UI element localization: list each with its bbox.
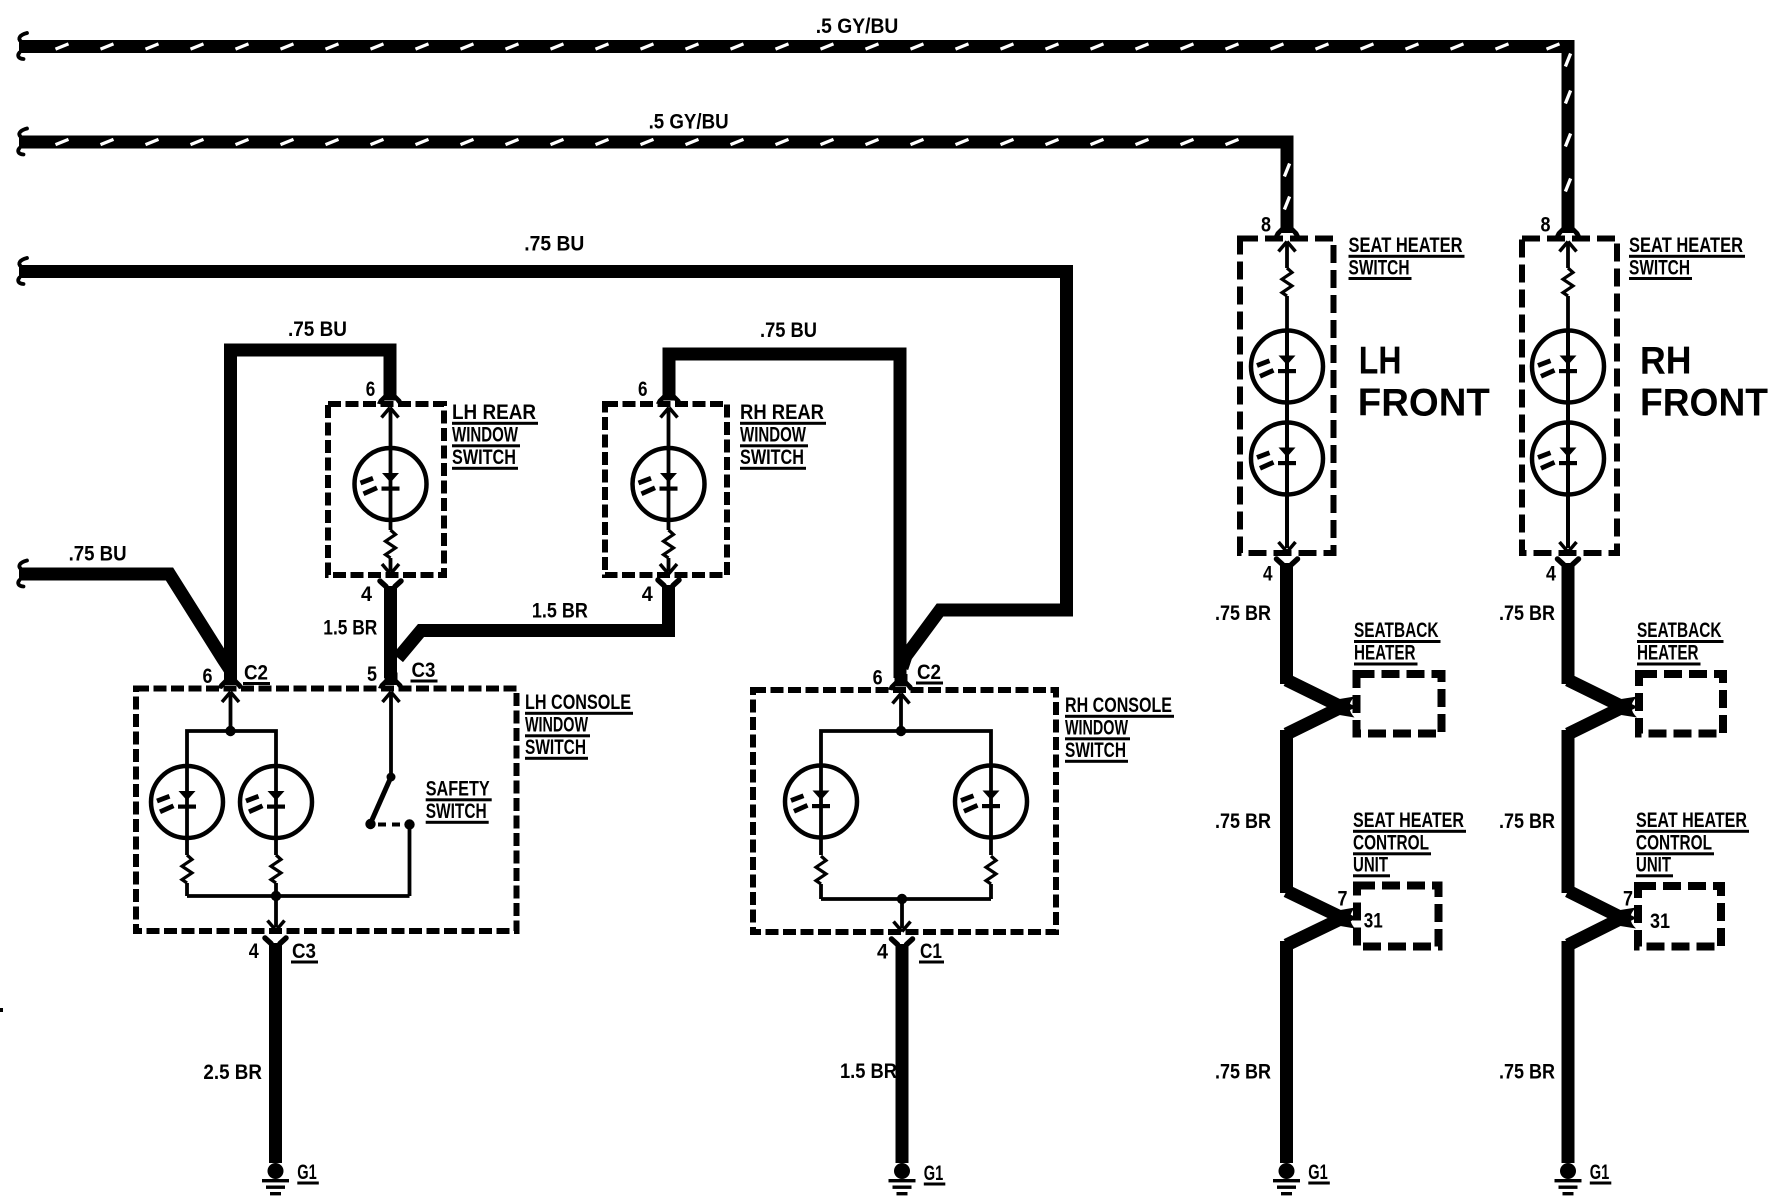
wire .75 BU left stub to LH console pin 6 bbox=[18, 561, 229, 670]
wire .5 GY/BU second feed bbox=[18, 129, 1289, 228]
resistor RH rear window switch bbox=[664, 530, 674, 571]
svg-text:LH REAR: LH REAR bbox=[452, 401, 536, 424]
lamp RH rear window switch bbox=[633, 448, 705, 530]
ground G1 (LH console) bbox=[262, 1163, 289, 1195]
lamp 2 RH seat heater switch bbox=[1532, 422, 1604, 548]
svg-text:WINDOW: WINDOW bbox=[1065, 717, 1128, 740]
pin 4 C3 connector LH console bbox=[265, 921, 286, 944]
pin 4 label RH seat heater switch bbox=[1546, 563, 1556, 586]
resistor 2 RH console bbox=[986, 856, 996, 899]
RH seat heater switch box bbox=[1522, 239, 1617, 554]
svg-text:31: 31 bbox=[1650, 910, 1670, 933]
pin 4 label LH seat heater switch bbox=[1263, 563, 1273, 586]
RH console window switch box bbox=[753, 690, 1056, 932]
svg-text:G1: G1 bbox=[924, 1162, 944, 1185]
pin 6 label LH console bbox=[203, 665, 213, 688]
svg-text:4: 4 bbox=[361, 583, 372, 606]
svg-text:.75 BU: .75 BU bbox=[288, 318, 347, 341]
svg-text:.75 BU: .75 BU bbox=[69, 543, 127, 566]
lamp 2 RH console bbox=[955, 766, 1027, 856]
wire internal bottom rail RH console bbox=[821, 897, 991, 901]
svg-text:FRONT: FRONT bbox=[1358, 381, 1490, 424]
svg-text:C1: C1 bbox=[920, 940, 942, 963]
node junction bottom LH console bbox=[271, 891, 281, 927]
safety switch label bbox=[426, 778, 492, 824]
svg-text:6: 6 bbox=[366, 378, 376, 401]
svg-text:4: 4 bbox=[642, 583, 653, 606]
resistor LH seat heater switch bbox=[1282, 268, 1292, 330]
svg-text:4: 4 bbox=[877, 941, 888, 964]
svg-text:SWITCH: SWITCH bbox=[452, 446, 516, 469]
svg-text:4: 4 bbox=[1263, 563, 1273, 586]
svg-text:G1: G1 bbox=[1590, 1161, 1610, 1184]
LH seat heater switch box bbox=[1240, 239, 1334, 554]
pin 6 connector LH rear bbox=[377, 388, 403, 449]
pin 7 label LH control unit bbox=[1338, 888, 1348, 911]
terminal 31 label RH control unit bbox=[1650, 910, 1670, 933]
svg-text:SWITCH: SWITCH bbox=[426, 800, 487, 823]
safety switch contact left bbox=[365, 819, 375, 829]
RH seat heater control unit box bbox=[1638, 886, 1721, 947]
label 2.5 BR bbox=[203, 1061, 262, 1084]
tap to LH seatback heater bbox=[1287, 680, 1355, 734]
svg-text:7: 7 bbox=[1338, 888, 1348, 911]
resistor 1 LH console bbox=[182, 855, 192, 896]
label .75 BR LH middle bbox=[1215, 810, 1271, 833]
connector C3 label pin5 bbox=[411, 659, 438, 683]
lamp 2 LH seat heater switch bbox=[1251, 422, 1323, 548]
svg-text:8: 8 bbox=[1261, 214, 1271, 237]
pin 8 label LH bbox=[1261, 214, 1271, 237]
pin 6 connector RH rear bbox=[656, 388, 682, 449]
LH console window switch box bbox=[136, 689, 517, 932]
svg-text:LH: LH bbox=[1359, 340, 1402, 383]
label G1 (LH column) bbox=[1308, 1161, 1330, 1185]
tap to RH seatback heater bbox=[1568, 680, 1637, 734]
pin 4 connector RH seat heater switch bbox=[1558, 542, 1579, 565]
svg-text:31: 31 bbox=[1364, 910, 1383, 933]
pin 8 connector RH seat heater switch bbox=[1555, 221, 1581, 269]
svg-text:CONTROL: CONTROL bbox=[1636, 832, 1712, 855]
svg-text:C3: C3 bbox=[292, 940, 316, 963]
pin 4 label RH rear bbox=[642, 583, 653, 606]
pin 8 label RH bbox=[1541, 214, 1551, 237]
terminal 31 label LH control unit bbox=[1364, 910, 1383, 933]
label .5 GY/BU (wire 1) bbox=[816, 15, 899, 38]
svg-text:.75 BU: .75 BU bbox=[760, 319, 817, 342]
pin 6 C2 connector RH console bbox=[888, 674, 914, 731]
wire internal top rail RH console bbox=[821, 731, 991, 766]
svg-text:4: 4 bbox=[249, 940, 259, 963]
RH seat heater control unit label bbox=[1636, 809, 1749, 877]
RH console window switch label bbox=[1065, 694, 1174, 763]
resistor 2 LH console bbox=[271, 855, 281, 896]
svg-text:WINDOW: WINDOW bbox=[452, 424, 518, 447]
LH seat heater switch label bbox=[1349, 234, 1465, 280]
resistor 1 RH console bbox=[816, 856, 826, 899]
ground G1 (RH column) bbox=[1555, 1163, 1582, 1195]
svg-text:1.5 BR: 1.5 BR bbox=[840, 1060, 897, 1083]
tap to LH seat heater control unit pin 7 bbox=[1287, 891, 1356, 945]
svg-text:C3: C3 bbox=[412, 659, 436, 682]
svg-text:4: 4 bbox=[1546, 563, 1556, 586]
pin 6 C2 connector LH console bbox=[218, 673, 244, 732]
svg-text:LH CONSOLE: LH CONSOLE bbox=[525, 691, 631, 714]
label .75 BR RH lower bbox=[1499, 1061, 1555, 1084]
svg-text:.75 BR: .75 BR bbox=[1499, 810, 1555, 833]
label 1.5 BR (right) bbox=[532, 600, 588, 623]
svg-text:6: 6 bbox=[638, 378, 648, 401]
wire 1.5 BR from RH rear switch pin 4 bbox=[398, 585, 669, 658]
RH seatback heater label bbox=[1637, 619, 1724, 666]
svg-text:SAFETY: SAFETY bbox=[426, 778, 490, 801]
lamp 1 LH console bbox=[151, 766, 223, 855]
label .75 BU (wire 3) bbox=[524, 233, 584, 256]
svg-text:.5 GY/BU: .5 GY/BU bbox=[816, 15, 899, 38]
pin 4 connector LH rear bbox=[380, 564, 401, 587]
safety switch contact top bbox=[387, 773, 396, 782]
wire .75 BR RH column (pin4 to seatback heater to control unit to ground) bbox=[1562, 563, 1575, 1163]
svg-text:1.5 BR: 1.5 BR bbox=[532, 600, 588, 623]
pin 6 label LH rear bbox=[366, 378, 376, 401]
wire .75 BU to RH rear window switch and RH console bbox=[669, 354, 900, 678]
page edge tick mark bbox=[0, 1008, 3, 1012]
pin 4 connector RH rear bbox=[658, 564, 679, 586]
pin 5 C3 connector LH console bbox=[378, 673, 404, 774]
svg-text:RH REAR: RH REAR bbox=[740, 401, 824, 424]
LH rear window switch label bbox=[452, 401, 538, 470]
wire .75 BU long feed to RH console bbox=[18, 258, 1066, 668]
label G1 (LH console) bbox=[297, 1161, 319, 1185]
svg-text:HEATER: HEATER bbox=[1637, 642, 1699, 665]
LH seatback heater label bbox=[1354, 619, 1441, 666]
pin 6 label RH rear bbox=[638, 378, 648, 401]
svg-text:RH: RH bbox=[1640, 340, 1692, 383]
pin 4 label LH rear bbox=[361, 583, 372, 606]
LH seatback heater box bbox=[1357, 674, 1442, 734]
wire .5 GY/BU top feed bbox=[18, 33, 1570, 227]
LH seat heater control unit label bbox=[1353, 809, 1466, 877]
connector C2 label LH console bbox=[243, 662, 270, 686]
pin 4 label LH console bbox=[249, 940, 259, 963]
wire 1.5 BR RH console to ground bbox=[896, 944, 909, 1163]
connector C3 label pin4 bbox=[291, 940, 318, 964]
wire 2.5 BR to ground bbox=[269, 943, 282, 1163]
pin 4 connector LH seat heater switch bbox=[1277, 542, 1298, 565]
label .75 BU (wire 6) bbox=[69, 543, 127, 566]
svg-text:FRONT: FRONT bbox=[1640, 381, 1768, 424]
svg-text:WINDOW: WINDOW bbox=[740, 424, 806, 447]
pin 4 C1 connector RH console bbox=[892, 922, 913, 945]
node junction top RH console bbox=[896, 726, 906, 736]
svg-text:G1: G1 bbox=[297, 1161, 317, 1184]
ground G1 (LH column) bbox=[1273, 1163, 1300, 1195]
svg-text:6: 6 bbox=[203, 665, 213, 688]
tap to RH seat heater control unit pin 7 bbox=[1568, 891, 1636, 945]
svg-text:6: 6 bbox=[873, 667, 883, 690]
wire 1.5 BR from LH rear switch pin 4 to console pin 5 bbox=[384, 586, 397, 678]
svg-text:8: 8 bbox=[1541, 214, 1551, 237]
wire internal top rail LH console bbox=[187, 731, 276, 766]
svg-text:UNIT: UNIT bbox=[1636, 854, 1671, 877]
svg-text:SEATBACK: SEATBACK bbox=[1354, 619, 1439, 642]
svg-text:5: 5 bbox=[367, 663, 377, 686]
svg-text:HEATER: HEATER bbox=[1354, 642, 1416, 665]
svg-text:.75 BR: .75 BR bbox=[1215, 1061, 1271, 1084]
safety switch lever bbox=[372, 777, 392, 821]
svg-text:UNIT: UNIT bbox=[1353, 854, 1388, 877]
svg-text:SWITCH: SWITCH bbox=[1349, 256, 1410, 279]
svg-text:SEATBACK: SEATBACK bbox=[1637, 619, 1722, 642]
lamp 1 RH console bbox=[785, 766, 857, 856]
svg-text:SEAT HEATER: SEAT HEATER bbox=[1636, 809, 1747, 832]
svg-text:WINDOW: WINDOW bbox=[525, 714, 588, 737]
wire .75 BR LH column (pin4 to seatback heater to control unit to ground) bbox=[1280, 563, 1293, 1163]
LH seat heater control unit box bbox=[1357, 886, 1439, 947]
node junction top LH console bbox=[225, 726, 235, 736]
svg-text:1.5 BR: 1.5 BR bbox=[323, 617, 377, 640]
svg-text:SWITCH: SWITCH bbox=[525, 736, 586, 759]
LH console window switch label bbox=[525, 691, 633, 760]
label .75 BR RH upper bbox=[1499, 602, 1555, 625]
svg-text:.5 GY/BU: .5 GY/BU bbox=[649, 111, 729, 134]
safety switch dashed link bbox=[378, 823, 403, 827]
svg-text:SEAT HEATER: SEAT HEATER bbox=[1629, 234, 1743, 257]
lamp 1 LH seat heater switch bbox=[1251, 330, 1323, 422]
svg-text:SEAT HEATER: SEAT HEATER bbox=[1353, 809, 1464, 832]
svg-text:SEAT HEATER: SEAT HEATER bbox=[1349, 234, 1463, 257]
LH rear window switch box bbox=[328, 404, 444, 575]
label .5 GY/BU (wire 2) bbox=[649, 111, 729, 134]
svg-text:.75 BR: .75 BR bbox=[1215, 602, 1271, 625]
pin 7 label RH control unit bbox=[1623, 888, 1633, 911]
svg-text:SWITCH: SWITCH bbox=[1629, 256, 1690, 279]
svg-text:C2: C2 bbox=[917, 661, 941, 684]
lamp LH rear window switch bbox=[355, 448, 427, 530]
lamp 1 RH seat heater switch bbox=[1532, 330, 1604, 422]
svg-text:G1: G1 bbox=[1308, 1161, 1328, 1184]
label .75 BR LH upper bbox=[1215, 602, 1271, 625]
label .75 BU (wire 5) bbox=[760, 319, 817, 342]
label .75 BR RH middle bbox=[1499, 810, 1555, 833]
pin 4 label RH console bbox=[877, 941, 888, 964]
pin 8 connector LH seat heater switch bbox=[1274, 221, 1300, 269]
label .75 BR LH lower bbox=[1215, 1061, 1271, 1084]
label 1.5 BR (left) bbox=[323, 617, 377, 640]
resistor RH seat heater switch bbox=[1563, 268, 1573, 330]
svg-text:2.5 BR: 2.5 BR bbox=[203, 1061, 262, 1084]
node junction bottom RH console bbox=[897, 894, 907, 928]
label G1 (RH console) bbox=[924, 1162, 946, 1186]
pin 6 label RH console bbox=[873, 667, 883, 690]
svg-text:.75 BR: .75 BR bbox=[1499, 602, 1555, 625]
svg-text:7: 7 bbox=[1623, 888, 1633, 911]
pin 5 label bbox=[367, 663, 377, 686]
RH FRONT label bbox=[1640, 340, 1768, 425]
svg-text:.75 BR: .75 BR bbox=[1215, 810, 1271, 833]
connector C1 label bbox=[919, 940, 944, 964]
RH seat heater switch label bbox=[1629, 234, 1745, 280]
svg-text:CONTROL: CONTROL bbox=[1353, 832, 1429, 855]
RH rear window switch box bbox=[605, 404, 727, 575]
LH FRONT label bbox=[1358, 340, 1490, 425]
wire .75 BU to LH rear window switch and LH console bbox=[231, 350, 391, 678]
wire internal bottom rail LH console bbox=[187, 894, 410, 898]
ground G1 (RH console) bbox=[889, 1163, 916, 1195]
lamp 2 LH console bbox=[240, 766, 312, 855]
connector C2 label RH console bbox=[916, 661, 943, 685]
RH rear window switch label bbox=[740, 401, 826, 470]
resistor LH rear window switch bbox=[386, 530, 396, 571]
svg-text:SWITCH: SWITCH bbox=[1065, 739, 1126, 762]
svg-text:.75 BU: .75 BU bbox=[524, 233, 584, 256]
label .75 BU (wire 4) bbox=[288, 318, 347, 341]
svg-text:.75 BR: .75 BR bbox=[1499, 1061, 1555, 1084]
svg-text:SWITCH: SWITCH bbox=[740, 446, 804, 469]
safety switch contact right bbox=[404, 819, 414, 896]
label G1 (RH column) bbox=[1590, 1161, 1612, 1185]
svg-text:RH CONSOLE: RH CONSOLE bbox=[1065, 694, 1172, 717]
RH seatback heater box bbox=[1639, 674, 1723, 734]
label 1.5 BR (RH console ground wire) bbox=[840, 1060, 897, 1083]
svg-text:C2: C2 bbox=[244, 662, 268, 685]
